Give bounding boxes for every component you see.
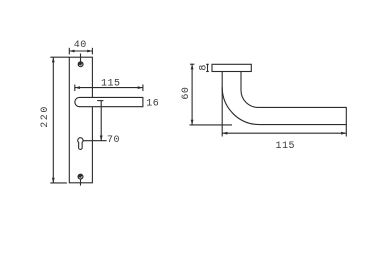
svg-text:70: 70: [107, 135, 120, 146]
svg-text:8: 8: [199, 64, 210, 71]
dimension 220 line: [50, 57, 69, 183]
lever handle front view: [75, 97, 143, 106]
svg-text:16: 16: [146, 99, 159, 110]
screw centerline top: [80, 54, 82, 63]
dimension 115 top view line: [222, 87, 346, 136]
screw top: [78, 61, 84, 67]
dimension 115 front line: [75, 85, 143, 92]
svg-text:60: 60: [181, 87, 192, 100]
keyhole: [78, 138, 83, 150]
backplate edge top view: [212, 64, 251, 71]
dimension 8 line: [206, 64, 209, 71]
lever neck and arm top view: [222, 72, 346, 125]
dimension 40 line: [69, 48, 92, 55]
svg-text:40: 40: [74, 40, 87, 51]
dimension 60 line: [190, 64, 233, 125]
screw centerline bottom: [80, 179, 82, 186]
svg-text:115: 115: [101, 79, 121, 90]
svg-text:115: 115: [276, 141, 296, 152]
screw bottom: [78, 174, 84, 180]
backplate front view: [69, 57, 92, 183]
svg-text:220: 220: [40, 105, 51, 128]
dimension 70 line: [83, 101, 107, 141]
